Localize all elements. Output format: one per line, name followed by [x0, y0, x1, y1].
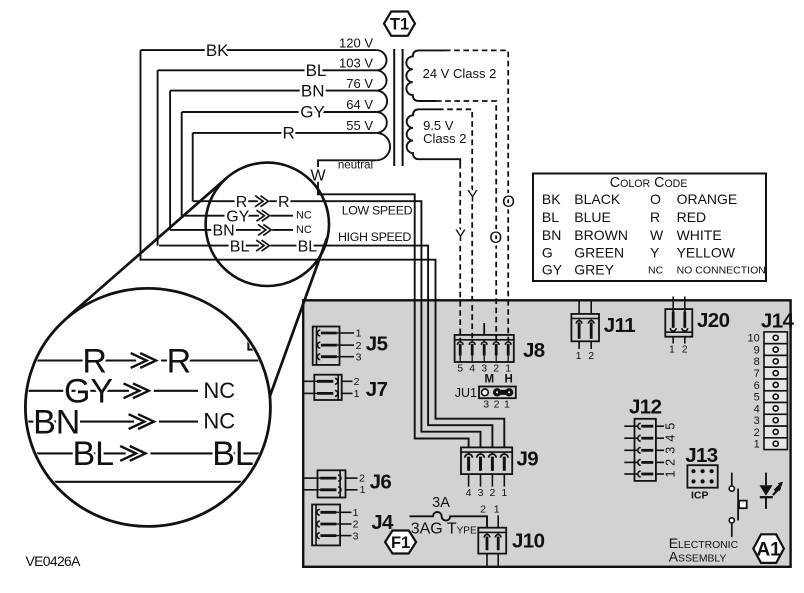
LED indicator	[760, 473, 783, 509]
wire BL left drop	[157, 70, 159, 245]
svg-text:10: 10	[748, 333, 760, 345]
small plug detail labels and chevrons	[212, 194, 317, 255]
svg-text:3: 3	[483, 399, 489, 411]
jumper JU1	[455, 374, 516, 411]
hexagon A1	[753, 534, 784, 563]
svg-text:1: 1	[576, 350, 582, 362]
svg-text:Y: Y	[650, 245, 660, 261]
svg-text:R: R	[650, 209, 660, 225]
svg-text:2: 2	[754, 427, 760, 439]
svg-text:J7: J7	[366, 378, 388, 401]
connector J14	[748, 310, 795, 451]
transformer secondary winding 24 V Class 2	[406, 50, 496, 101]
svg-text:BL: BL	[230, 238, 250, 255]
wire BK 120V tap	[141, 35, 377, 60]
fuse F1 3A 3AG	[410, 495, 488, 538]
svg-text:YELLOW: YELLOW	[677, 245, 736, 261]
svg-text:1: 1	[663, 470, 677, 477]
svg-text:5: 5	[754, 392, 760, 404]
connector J10	[478, 503, 544, 567]
svg-text:2: 2	[494, 399, 500, 411]
svg-text:J10: J10	[512, 530, 545, 553]
magnified W corner elbow	[248, 336, 262, 350]
svg-text:ICP: ICP	[691, 490, 709, 502]
svg-text:O: O	[650, 191, 661, 207]
svg-text:3: 3	[754, 415, 760, 427]
svg-text:J20: J20	[697, 309, 730, 332]
transformer secondary winding 9.5 V Class 2	[407, 109, 467, 163]
svg-text:7: 7	[754, 368, 760, 380]
svg-text:1: 1	[504, 399, 510, 411]
svg-text:BL: BL	[73, 435, 115, 473]
svg-text:2: 2	[359, 472, 365, 484]
motor plug row BN (NC)	[170, 229, 293, 231]
svg-text:NC: NC	[203, 378, 235, 403]
svg-text:1: 1	[353, 507, 359, 519]
svg-text:BK: BK	[206, 41, 229, 60]
svg-text:2: 2	[682, 344, 688, 356]
svg-text:R: R	[278, 194, 290, 211]
svg-text:GREEN: GREEN	[574, 245, 624, 261]
svg-text:1: 1	[501, 487, 507, 499]
svg-text:Y: Y	[467, 188, 478, 206]
magnified contents (clipped)	[0, 336, 280, 482]
svg-text:BL: BL	[542, 209, 559, 225]
svg-text:R: R	[167, 342, 192, 380]
motor plug row BL (to J9 pin 2)	[159, 246, 492, 448]
svg-text:BL: BL	[298, 238, 318, 255]
magnified row GY line	[0, 390, 198, 392]
connector J13 ICP	[685, 444, 718, 502]
svg-text:VE0426A: VE0426A	[26, 553, 82, 569]
svg-text:9: 9	[754, 345, 760, 357]
svg-text:GREY: GREY	[574, 262, 614, 278]
wire R 55V tap	[193, 118, 377, 143]
motor connector detail small circle	[206, 163, 329, 286]
label ELECTRONIC ASSEMBLY	[669, 535, 739, 565]
wire BK left drop and bottom run to J9 pin 1	[141, 50, 505, 447]
label LOW SPEED	[342, 203, 413, 217]
svg-text:J9: J9	[517, 448, 539, 471]
svg-text:neutral: neutral	[338, 160, 373, 172]
svg-text:3: 3	[481, 362, 487, 374]
svg-text:J11: J11	[604, 314, 635, 337]
svg-text:2: 2	[663, 459, 677, 466]
connector J8	[455, 323, 545, 374]
svg-text:J14: J14	[761, 310, 795, 333]
svg-text:4: 4	[466, 487, 472, 499]
svg-text:2: 2	[493, 362, 499, 374]
motor plug row R (to J9 pin 3)	[193, 201, 481, 447]
svg-text:24 V Class 2: 24 V Class 2	[423, 66, 497, 81]
transformer core	[394, 49, 402, 166]
svg-text:J8: J8	[523, 339, 545, 362]
svg-text:J5: J5	[366, 333, 388, 356]
wire GY 64V tap	[182, 97, 377, 122]
svg-text:2: 2	[354, 376, 360, 388]
svg-text:BROWN: BROWN	[574, 227, 628, 243]
svg-text:F1: F1	[391, 534, 410, 552]
svg-text:8: 8	[754, 356, 760, 368]
wire BN 76V tap	[170, 76, 376, 101]
magnifier tangent line upper	[68, 178, 226, 317]
svg-text:4: 4	[663, 435, 677, 442]
svg-text:COLOR CODE: COLOR CODE	[610, 175, 688, 191]
magnified row R line	[0, 359, 280, 361]
wire Y (9.5V bottom) dashed to J8 pin 5	[455, 163, 466, 340]
drawing number VE0426A	[26, 553, 82, 569]
svg-text:J6: J6	[370, 471, 392, 494]
connector J5	[313, 327, 388, 365]
svg-text:BLACK: BLACK	[574, 191, 621, 207]
svg-text:3: 3	[478, 487, 484, 499]
svg-text:3: 3	[353, 530, 359, 542]
wire O (24V top) dashed to J8 pin 1	[445, 50, 515, 340]
svg-text:GY: GY	[542, 262, 563, 278]
svg-text:A1: A1	[756, 540, 781, 561]
connector J11	[571, 300, 635, 362]
svg-text:1: 1	[354, 388, 360, 400]
svg-text:NO CONNECTION: NO CONNECTION	[677, 265, 766, 277]
svg-text:W: W	[650, 227, 664, 243]
svg-text:BL: BL	[212, 435, 254, 473]
magnified motor connector big circle	[25, 288, 270, 526]
svg-text:JU1: JU1	[455, 386, 477, 400]
svg-text:2: 2	[353, 519, 359, 531]
svg-text:1: 1	[505, 362, 511, 374]
svg-text:2: 2	[356, 340, 362, 352]
wire Y (9.5V top) dashed to J8 pin 4	[438, 109, 478, 340]
connector J12	[624, 396, 677, 481]
svg-text:64 V: 64 V	[346, 97, 373, 112]
svg-text:5: 5	[457, 362, 463, 374]
svg-text:J12: J12	[629, 396, 662, 419]
svg-text:103 V: 103 V	[339, 56, 373, 71]
svg-text:ORANGE: ORANGE	[677, 191, 738, 207]
svg-text:120 V: 120 V	[339, 35, 373, 50]
svg-text:6: 6	[754, 380, 760, 392]
svg-text:1: 1	[494, 503, 500, 515]
wire BN left drop	[169, 91, 171, 230]
magnified row BL line	[0, 452, 280, 454]
svg-text:HIGH SPEED: HIGH SPEED	[338, 230, 411, 244]
connector J20	[665, 297, 729, 356]
svg-text:3A: 3A	[432, 495, 450, 511]
svg-text:RED: RED	[677, 209, 707, 225]
connector J4	[312, 505, 394, 546]
svg-text:1: 1	[360, 484, 366, 496]
wire R left drop	[192, 133, 194, 201]
magnified BK bottom line	[0, 481, 280, 483]
svg-text:H: H	[504, 374, 512, 386]
svg-text:BN: BN	[542, 227, 561, 243]
svg-text:2: 2	[489, 487, 495, 499]
wire neutral tap / W	[310, 160, 468, 448]
connector J7	[304, 375, 388, 401]
svg-text:BL: BL	[306, 61, 327, 80]
svg-text:GY: GY	[300, 103, 325, 122]
svg-text:2: 2	[480, 503, 486, 515]
svg-text:G: G	[542, 245, 553, 261]
svg-text:3: 3	[663, 447, 677, 454]
svg-text:76 V: 76 V	[346, 76, 373, 91]
svg-text:2: 2	[588, 350, 594, 362]
magnifier tangent line lower	[269, 238, 327, 400]
svg-text:O: O	[489, 229, 502, 247]
wire GY left drop	[181, 112, 183, 216]
transformer T1 hexagon label	[384, 12, 415, 36]
svg-text:M: M	[485, 374, 495, 386]
svg-text:O: O	[502, 193, 515, 211]
svg-text:5: 5	[663, 423, 677, 430]
connector J9	[461, 447, 538, 499]
svg-text:1: 1	[669, 344, 675, 356]
label HIGH SPEED	[338, 230, 411, 244]
svg-text:WHITE: WHITE	[677, 227, 722, 243]
svg-text:4: 4	[754, 403, 760, 415]
svg-text:3: 3	[356, 351, 362, 363]
svg-text:BN: BN	[301, 81, 325, 100]
push button switch	[729, 473, 747, 537]
svg-text:NC: NC	[648, 265, 664, 277]
svg-text:55 V: 55 V	[346, 118, 373, 133]
svg-text:J13: J13	[685, 444, 718, 467]
transformer T1 primary winding (tapped, scallops)	[376, 50, 390, 160]
svg-text:1: 1	[754, 439, 760, 451]
svg-text:LOW SPEED: LOW SPEED	[342, 203, 413, 217]
svg-text:1: 1	[356, 328, 362, 340]
PCB electronic assembly board A1	[303, 300, 790, 567]
hexagon F1	[385, 531, 416, 554]
magnified row BN line	[0, 421, 198, 423]
color code legend box	[533, 174, 766, 282]
svg-text:Class 2: Class 2	[423, 131, 466, 146]
motor plug row GY (NC)	[182, 215, 293, 217]
svg-text:NC: NC	[203, 409, 235, 434]
svg-text:J4: J4	[371, 511, 394, 534]
svg-text:BLUE: BLUE	[574, 209, 611, 225]
wire O (24V bottom) dashed to J8 pin 2	[436, 101, 502, 340]
svg-text:NC: NC	[296, 209, 312, 221]
svg-text:NC: NC	[296, 224, 312, 236]
svg-text:Y: Y	[455, 227, 466, 245]
svg-text:T1: T1	[390, 16, 409, 34]
connector J6	[304, 470, 392, 497]
wire BL 103V tap	[158, 56, 377, 81]
svg-text:R: R	[282, 124, 294, 143]
svg-text:BK: BK	[542, 191, 561, 207]
svg-text:BN: BN	[212, 223, 234, 240]
svg-text:4: 4	[469, 362, 475, 374]
